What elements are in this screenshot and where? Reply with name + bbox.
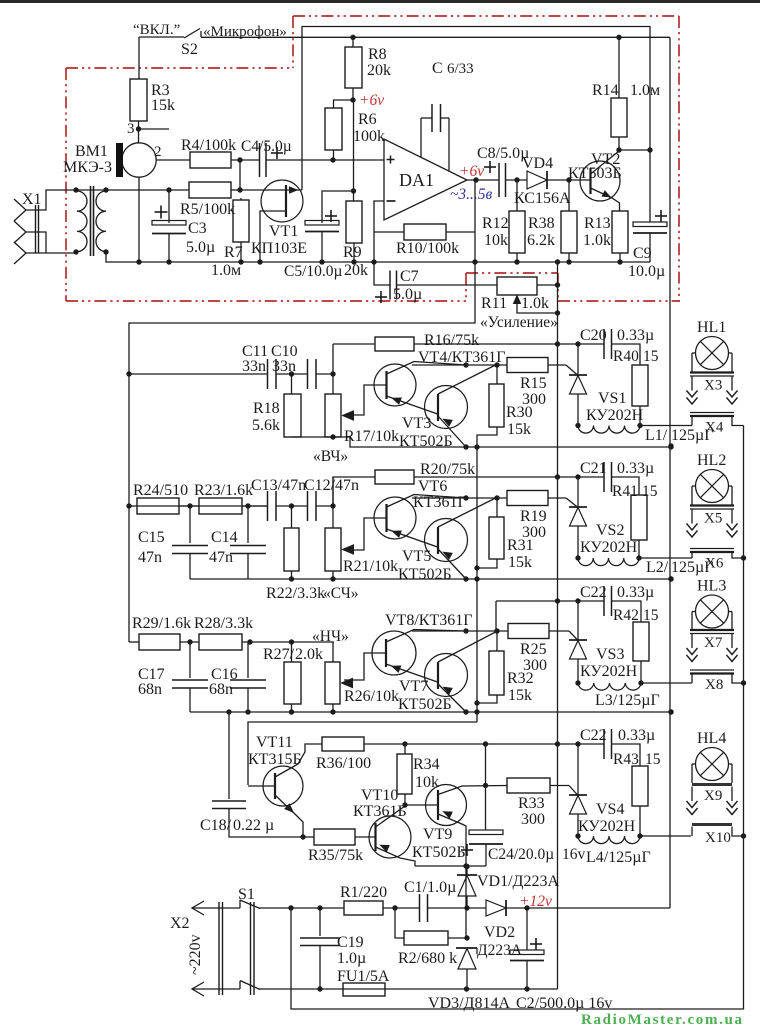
- wire ch2 rail: [190, 578, 671, 580]
- connector X6: [690, 548, 734, 550]
- svg-text:R31: R31: [507, 537, 534, 554]
- svg-text:R2/680 k: R2/680 k: [398, 950, 457, 967]
- capacitor C8: [484, 166, 496, 168]
- transistor VT2 КТ503Б: [580, 161, 620, 201]
- svg-text:HL4: HL4: [697, 730, 726, 747]
- connector X3: [690, 371, 734, 373]
- svg-text:КУ202Н: КУ202Н: [586, 407, 644, 424]
- wire DA1 output: [467, 179, 499, 181]
- svg-text:C22: C22: [580, 727, 607, 744]
- resistor R28: [199, 634, 242, 650]
- svg-text:R4/100k: R4/100k: [181, 137, 236, 154]
- resistor R3: [138, 37, 140, 79]
- svg-text:33n: 33n: [242, 358, 266, 375]
- top border bar: [0, 0, 760, 3]
- transistor VT4 КТ361Г: [374, 364, 416, 406]
- wire minus input to R10: [374, 201, 390, 285]
- svg-text:2: 2: [154, 144, 162, 160]
- wire L2 to X6: [639, 557, 692, 559]
- svg-text:X5: X5: [704, 511, 722, 527]
- svg-text:VD2: VD2: [484, 924, 515, 941]
- wire C7 to R11: [397, 284, 498, 286]
- svg-text:VD4: VD4: [522, 155, 553, 172]
- svg-text:КТ502Б: КТ502Б: [398, 696, 452, 713]
- svg-text:VT11: VT11: [256, 734, 293, 751]
- transistor VT8 КТ361Г: [372, 631, 416, 675]
- svg-text:15: 15: [643, 607, 659, 624]
- capacitor C10: [307, 359, 309, 389]
- connector X8: [690, 669, 734, 671]
- svg-text:C15: C15: [138, 529, 165, 546]
- diode VD2 Д223А: [486, 900, 506, 916]
- svg-text:VT4/КТ361Г: VT4/КТ361Г: [418, 349, 505, 366]
- wire C4 to DA1: [266, 159, 384, 161]
- svg-text:3: 3: [127, 121, 135, 137]
- svg-text:КС156А: КС156А: [514, 190, 571, 207]
- resistor R7: [233, 200, 249, 242]
- wire L1 to X4: [640, 425, 692, 427]
- transformer windings: [77, 191, 87, 252]
- svg-text:R11: R11: [481, 295, 507, 312]
- svg-text:C: C: [432, 60, 443, 77]
- svg-text:C4/5.0µ: C4/5.0µ: [241, 138, 292, 155]
- svg-text:R25: R25: [520, 641, 547, 658]
- svg-text:VS2: VS2: [596, 522, 624, 539]
- resistor R15: [507, 358, 548, 373]
- svg-text:R7: R7: [224, 244, 243, 261]
- svg-text:68n: 68n: [138, 681, 162, 698]
- resistor R42: [612, 601, 642, 622]
- svg-text:X2: X2: [170, 915, 190, 932]
- svg-text:15: 15: [642, 483, 658, 500]
- svg-text:R34: R34: [413, 756, 440, 773]
- svg-text:6.2k: 6.2k: [527, 232, 555, 249]
- svg-text:5.0µ: 5.0µ: [186, 239, 215, 256]
- svg-text:1.0м: 1.0м: [211, 262, 241, 279]
- svg-text:L4/125µГ: L4/125µГ: [586, 849, 651, 866]
- plug pins arrows: [691, 634, 693, 649]
- wire S1 to R1: [259, 907, 344, 909]
- wire VT1 source: [260, 211, 286, 262]
- resistor R9: [351, 188, 356, 193]
- capacitor C9: [649, 150, 651, 222]
- svg-text:«ВЧ»: «ВЧ»: [313, 448, 348, 465]
- svg-text:КТ502Б: КТ502Б: [399, 433, 453, 450]
- capacitor C12: [307, 491, 309, 521]
- svg-text:47n: 47n: [138, 549, 162, 566]
- svg-text:R41: R41: [612, 483, 638, 500]
- svg-text:C5/10.0µ: C5/10.0µ: [284, 263, 343, 280]
- svg-text:VT10: VT10: [361, 787, 398, 804]
- transistor VT10 КТ361Б: [369, 816, 411, 858]
- svg-text:КТ502Б: КТ502Б: [398, 566, 452, 583]
- svg-text:C22: C22: [580, 584, 607, 601]
- svg-text:R24/510: R24/510: [133, 482, 188, 499]
- capacitor C6: [420, 118, 422, 157]
- wire ch3 rail: [190, 711, 671, 713]
- svg-text:16v: 16v: [562, 846, 586, 863]
- svg-text:C3: C3: [188, 220, 207, 237]
- resistor R12: [516, 180, 518, 211]
- capacitor C4: [259, 143, 261, 177]
- connector X4: [690, 412, 734, 414]
- wire mic-switch line: [201, 36, 670, 38]
- connector X7: [690, 629, 734, 631]
- svg-text:«Усиление»: «Усиление»: [480, 314, 558, 331]
- zener VD3 Д814А: [456, 947, 477, 949]
- svg-text:0.22 µ: 0.22 µ: [233, 817, 274, 834]
- svg-text:HL2: HL2: [697, 452, 726, 469]
- svg-text:VT1: VT1: [269, 223, 298, 240]
- svg-text:20k: 20k: [344, 262, 368, 279]
- svg-text:X4: X4: [705, 420, 724, 436]
- resistor R24: [137, 498, 179, 514]
- svg-text:КП103Е: КП103Е: [251, 240, 307, 257]
- capacitor C17: [189, 642, 191, 678]
- svg-text:R30: R30: [506, 404, 533, 421]
- resistor R33: [507, 778, 550, 793]
- svg-text:DA1: DA1: [399, 170, 434, 190]
- svg-text:X9: X9: [704, 788, 722, 804]
- resistor R25: [508, 624, 549, 639]
- svg-text:1.0k: 1.0k: [521, 295, 549, 312]
- resistor R5: [189, 182, 231, 198]
- svg-text:X10: X10: [705, 830, 731, 846]
- capacitor C7: [389, 271, 391, 300]
- thyristor VS2 КУ202Н: [577, 477, 579, 507]
- svg-text:0.33µ: 0.33µ: [618, 727, 655, 744]
- inductor L2: [578, 558, 639, 566]
- svg-text:R23/1.6k: R23/1.6k: [194, 482, 253, 499]
- connector X9: [692, 783, 732, 786]
- svg-text:+6v: +6v: [359, 92, 384, 109]
- capacitor C21: [603, 462, 605, 492]
- svg-text:~3...5в: ~3...5в: [450, 186, 493, 203]
- svg-text:R26/10k: R26/10k: [344, 688, 399, 705]
- svg-text:C14: C14: [211, 529, 238, 546]
- svg-text:КУ202Н: КУ202Н: [578, 818, 636, 835]
- svg-text:VS4: VS4: [596, 801, 624, 818]
- op-amp DA1: [384, 139, 467, 220]
- svg-text:«СЧ»: «СЧ»: [323, 585, 359, 602]
- svg-text:C12/: C12/: [304, 477, 336, 494]
- svg-text:+6v: +6v: [459, 163, 484, 180]
- svg-text:15k: 15k: [508, 687, 532, 704]
- svg-text:C19: C19: [337, 934, 364, 951]
- potentiometer R26: [332, 642, 334, 662]
- wire +12v vertical rail dots: [668, 443, 673, 448]
- wire lamp return: [691, 674, 693, 684]
- svg-text:R14: R14: [592, 82, 619, 99]
- wire L4 to X10: [640, 835, 691, 837]
- wire ch4 top line: [405, 743, 604, 745]
- svg-text:R12: R12: [482, 215, 509, 232]
- capacitor C13: [267, 491, 269, 521]
- svg-text:15k: 15k: [151, 97, 175, 114]
- svg-text:R42: R42: [613, 607, 639, 624]
- svg-text:R27/: R27/: [263, 646, 295, 663]
- svg-text:C18/: C18/: [200, 817, 232, 834]
- svg-text:0.33µ: 0.33µ: [617, 460, 654, 477]
- wire ch2 input line: [129, 505, 268, 507]
- resistor R14: [616, 35, 621, 40]
- resistor R2: [395, 908, 404, 938]
- node 3: [136, 126, 141, 131]
- svg-text:КТ503Б: КТ503Б: [568, 165, 622, 182]
- svg-text:X7: X7: [704, 635, 723, 651]
- wire transformer bottom to rail: [106, 252, 650, 262]
- svg-text:L3/125µГ: L3/125µГ: [595, 692, 660, 709]
- transistor VT1 КП103Е: [261, 180, 303, 222]
- svg-text:ВМ1: ВМ1: [75, 143, 108, 160]
- svg-text:R36/100: R36/100: [316, 755, 371, 772]
- svg-text:R10/100k: R10/100k: [396, 240, 459, 257]
- svg-text:“ВКЛ.”: “ВКЛ.”: [133, 22, 180, 38]
- svg-text:R29/1.6k: R29/1.6k: [132, 615, 191, 632]
- svg-text:R40: R40: [613, 348, 639, 365]
- svg-text:VT7: VT7: [399, 678, 428, 695]
- resistor R40: [612, 344, 641, 365]
- resistor R16: [333, 343, 375, 345]
- svg-text:VS3: VS3: [596, 646, 624, 663]
- svg-text:L2/: L2/: [646, 559, 669, 576]
- svg-text:VS1: VS1: [598, 390, 626, 407]
- resistor R43: [612, 744, 641, 766]
- svg-text:VT8/КТ361Г: VT8/КТ361Г: [385, 612, 472, 629]
- svg-text:R19: R19: [520, 508, 547, 525]
- plug pins arrows: [691, 787, 693, 802]
- plug pins arrows: [691, 376, 693, 391]
- svg-text:R1/220: R1/220: [340, 884, 387, 901]
- connector X5: [690, 504, 734, 506]
- svg-text:1.0k: 1.0k: [583, 232, 611, 249]
- svg-text:VD1/Д223А: VD1/Д223А: [477, 873, 559, 890]
- svg-text:КТ361Б: КТ361Б: [353, 803, 407, 820]
- wire lamp return: [691, 827, 693, 837]
- svg-text:~220v: ~220v: [187, 934, 204, 975]
- svg-text:VT3: VT3: [402, 415, 431, 432]
- svg-text:R28/3.3k: R28/3.3k: [194, 615, 253, 632]
- capacitor C2: [526, 908, 528, 950]
- wire top outer line: [302, 27, 650, 191]
- switch S2: [139, 36, 184, 38]
- svg-text:6/33: 6/33: [447, 61, 474, 77]
- svg-text:S2: S2: [181, 41, 198, 58]
- resistor R4: [190, 152, 231, 168]
- svg-text:КУ202Н: КУ202Н: [580, 663, 638, 680]
- potentiometer R11 1.0k: [497, 277, 537, 295]
- capacitor C15: [189, 506, 191, 543]
- svg-text:R17/10k: R17/10k: [344, 428, 399, 445]
- resistor R22: [291, 506, 293, 528]
- resistor R38: [568, 180, 570, 211]
- wire VT10 emitter line: [415, 865, 486, 867]
- wire ch1 collector line: [412, 364, 507, 366]
- svg-text:R9: R9: [343, 244, 362, 261]
- svg-text:15k: 15k: [508, 554, 532, 571]
- microphone BM1 МКЭ-3: [138, 129, 140, 143]
- capacitor C20: [603, 329, 605, 359]
- wire ch1 R16 riser: [332, 344, 334, 374]
- svg-text:1.0м: 1.0м: [630, 82, 660, 99]
- svg-text:33n: 33n: [272, 358, 296, 375]
- svg-text:10.0µ: 10.0µ: [628, 263, 665, 280]
- svg-text:МКЭ-3: МКЭ-3: [63, 159, 112, 176]
- capacitor C3: [166, 187, 171, 192]
- svg-text:47n: 47n: [209, 549, 233, 566]
- wire ch4 base-bias line: [248, 722, 477, 785]
- wire X1 mid pin: [26, 232, 46, 253]
- svg-text:15k: 15k: [507, 421, 531, 438]
- transistor VT11 КТ315Б: [263, 766, 303, 806]
- svg-text:R33: R33: [518, 795, 545, 812]
- capacitor C5: [322, 191, 354, 223]
- svg-text:15: 15: [643, 348, 659, 365]
- resistor R36: [322, 737, 364, 751]
- svg-text:КТ315Б: КТ315Б: [248, 751, 302, 768]
- capacitor C22 ch4: [603, 729, 605, 759]
- potentiometer R17: [332, 374, 334, 394]
- wire S1 to FU1: [259, 988, 343, 990]
- wire ch1 input line: [129, 373, 268, 375]
- wire +supply right corner: [669, 37, 671, 908]
- svg-text:C2/500.0µ 16v: C2/500.0µ 16v: [516, 995, 612, 1012]
- resistor R29: [129, 641, 139, 643]
- inductor L1: [578, 426, 640, 434]
- plug pins arrows: [691, 509, 693, 524]
- wire R5 gate line: [240, 189, 302, 191]
- resistor R35: [314, 829, 355, 845]
- resistor R41: [612, 477, 640, 495]
- svg-text:R13: R13: [584, 215, 611, 232]
- transistor VT7 КТ502Б: [425, 654, 468, 697]
- capacitor C1: [419, 894, 421, 922]
- svg-text:X8: X8: [705, 677, 723, 693]
- svg-text:R5/100k: R5/100k: [180, 201, 235, 218]
- svg-text:300: 300: [521, 811, 545, 828]
- capacitor C11: [267, 359, 269, 389]
- svg-text:C21: C21: [580, 460, 607, 477]
- wire transformer top line: [76, 189, 189, 191]
- svg-text:X6: X6: [705, 556, 724, 572]
- svg-text:68n: 68n: [209, 681, 233, 698]
- resistor R10: [404, 224, 446, 240]
- svg-text:HL1: HL1: [697, 319, 726, 336]
- inductor L4: [578, 836, 640, 844]
- wire R26 wiper to VT8 base: [344, 653, 386, 680]
- resistor R13: [612, 211, 628, 253]
- wire ch3 cap line: [496, 600, 604, 602]
- svg-text:15: 15: [645, 751, 661, 768]
- svg-text:R43: R43: [613, 751, 639, 768]
- svg-text:1.0µ: 1.0µ: [337, 950, 366, 967]
- diode VD1 Д223А: [466, 867, 468, 875]
- svg-text:0.33µ: 0.33µ: [617, 327, 654, 344]
- wire C24 riser: [485, 744, 487, 786]
- svg-text:R16/75k: R16/75k: [424, 332, 479, 349]
- svg-text:2.0k: 2.0k: [295, 646, 323, 663]
- svg-text:5.6k: 5.6k: [252, 417, 280, 434]
- svg-text:HL3: HL3: [697, 578, 726, 595]
- resistor R20: [333, 477, 375, 506]
- svg-text:R35/75k: R35/75k: [308, 847, 363, 864]
- svg-text:RadioMaster.com.ua: RadioMaster.com.ua: [581, 1012, 743, 1028]
- capacitor C14: [247, 506, 249, 543]
- thyristor VS3 КУ202Н: [577, 601, 579, 640]
- capacitor C22 ch3: [603, 586, 605, 616]
- wire mic stage bottom rail: [136, 259, 141, 264]
- wire R21 wiper to VT6 base: [344, 518, 386, 550]
- resistor R8: [350, 35, 355, 40]
- wire ch2 thyristor line: [414, 476, 604, 478]
- resistor R27: [291, 642, 293, 662]
- svg-text:20k: 20k: [367, 62, 391, 79]
- svg-text:VT6: VT6: [418, 478, 447, 495]
- diode VD4 КС156А: [527, 171, 547, 189]
- wire X1 bottom pin: [26, 252, 76, 254]
- svg-text:C7: C7: [400, 268, 419, 285]
- transistor VT6 КТ361Г: [374, 497, 416, 539]
- svg-text:R22/3.3k: R22/3.3k: [266, 585, 325, 602]
- wire R17 wiper to VT4 base: [344, 385, 386, 415]
- connector X10: [692, 823, 732, 826]
- svg-text:R32: R32: [507, 670, 534, 687]
- capacitor C18: [228, 712, 230, 799]
- resistor R18: [291, 374, 293, 394]
- svg-text:VT9: VT9: [423, 826, 452, 843]
- red dash-dot boundary (mic unit): [293, 15, 679, 17]
- resistor R19: [507, 491, 548, 506]
- svg-text:R6: R6: [358, 111, 377, 128]
- wire ch1 thyristor line: [414, 343, 604, 345]
- wire lamp mains column: [291, 426, 744, 1010]
- svg-text:C9: C9: [633, 245, 652, 262]
- resistor R1: [344, 901, 383, 915]
- wire lamp return: [691, 552, 693, 558]
- svg-text:10k: 10k: [484, 232, 508, 249]
- svg-text:R8: R8: [368, 46, 387, 63]
- svg-text:5.0µ: 5.0µ: [393, 286, 422, 303]
- transformer core: [90, 186, 92, 256]
- svg-text:R38: R38: [528, 215, 555, 232]
- svg-text:0.33µ: 0.33µ: [617, 584, 654, 601]
- svg-text:КТ502Б: КТ502Б: [412, 844, 466, 861]
- wire X1 top pin: [26, 190, 76, 210]
- svg-text:«НЧ»: «НЧ»: [312, 628, 349, 645]
- thyristor VS4 КУ202Н: [577, 744, 579, 795]
- svg-text:R15: R15: [520, 375, 547, 392]
- svg-text:КУ202Н: КУ202Н: [580, 539, 638, 556]
- capacitor C19: [319, 908, 321, 936]
- resistor R23: [199, 498, 242, 514]
- svg-text:47n: 47n: [335, 477, 359, 494]
- resistor R31: [496, 498, 498, 517]
- wire L3 to X8: [641, 682, 692, 684]
- svg-text:C20: C20: [580, 327, 607, 344]
- thyristor VS1 КУ202Н: [577, 344, 579, 375]
- svg-text:VD3/Д814А: VD3/Д814А: [428, 995, 510, 1012]
- transistor VT5 КТ502Б: [425, 519, 468, 562]
- svg-text:R21/10k: R21/10k: [343, 558, 398, 575]
- resistor R32: [496, 631, 498, 651]
- wire output feedback vertical: [129, 180, 475, 642]
- svg-text:+12v: +12v: [519, 893, 552, 910]
- transistor VT9 КТ502Б: [426, 785, 467, 826]
- resistor R30: [496, 365, 498, 384]
- svg-text:C24/20.0µ: C24/20.0µ: [488, 846, 554, 863]
- potentiometer R21: [332, 477, 334, 528]
- inductor L3: [578, 683, 641, 690]
